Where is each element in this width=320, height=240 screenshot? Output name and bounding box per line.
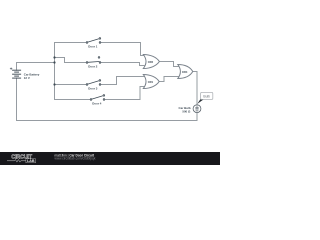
wire OR4 output down to bulb [193, 72, 197, 105]
or-gate OR1 [143, 75, 159, 89]
wire battery top to bus [17, 63, 55, 71]
wire door4 right to OR1 input B [105, 87, 145, 100]
svg-text:500 Ω: 500 Ω [182, 110, 191, 114]
flag annotation Bulb [197, 92, 213, 104]
lamp L1 Car Bulb [193, 105, 201, 113]
or-gate OR4 [178, 65, 193, 79]
battery label [24, 73, 40, 80]
svg-text:Bulb: Bulb [203, 94, 210, 98]
switch SW1 Door 1 (open) [86, 38, 101, 44]
node junction bus-battery [53, 61, 55, 63]
switch SW4 Door 4 (open) [90, 95, 105, 101]
or-gate OR2 [143, 55, 159, 69]
wire door1 right to OR2 input A [101, 43, 145, 56]
wire door2 right to OR2 input B [101, 63, 145, 66]
svg-text:Door 2: Door 2 [88, 64, 98, 68]
wire OR1 output to OR4 input B [159, 77, 178, 82]
wire bus vertical [54, 43, 56, 100]
node junction bus-door2 jog [53, 56, 55, 58]
svg-text:www.circuitlab.com/c6dbfpqk: www.circuitlab.com/c6dbfpqk [55, 156, 96, 160]
wire bulb bottom rail to battery [17, 78, 198, 120]
wire OR2 output to OR4 input A [159, 62, 178, 67]
switch SW2 Door 2 (closed) [86, 57, 101, 64]
switch SW3 Door 3 (open) [86, 80, 101, 86]
svg-text:OR1: OR1 [148, 80, 154, 84]
svg-text:Door 3: Door 3 [88, 86, 98, 90]
svg-text:OR4: OR4 [182, 70, 188, 74]
footer bar [0, 152, 220, 165]
svg-text:Door 4: Door 4 [92, 101, 102, 105]
wire door3 left [55, 84, 87, 86]
wire door2 jog from bus [55, 58, 87, 63]
wire door3 right to OR1 input A [101, 77, 145, 85]
svg-text:LAB: LAB [27, 159, 35, 163]
footer CircuitLab logo [7, 154, 36, 163]
wire door1 left [55, 42, 87, 44]
battery V1 Car Battery [12, 70, 21, 78]
footer text [55, 153, 96, 160]
svg-text:OR2: OR2 [148, 60, 154, 64]
node junction bus-door3 [53, 83, 55, 85]
lamp label [179, 106, 191, 114]
wire door4 left [55, 99, 91, 101]
svg-text:12 V: 12 V [24, 76, 30, 80]
svg-text:Door 1: Door 1 [88, 44, 98, 48]
